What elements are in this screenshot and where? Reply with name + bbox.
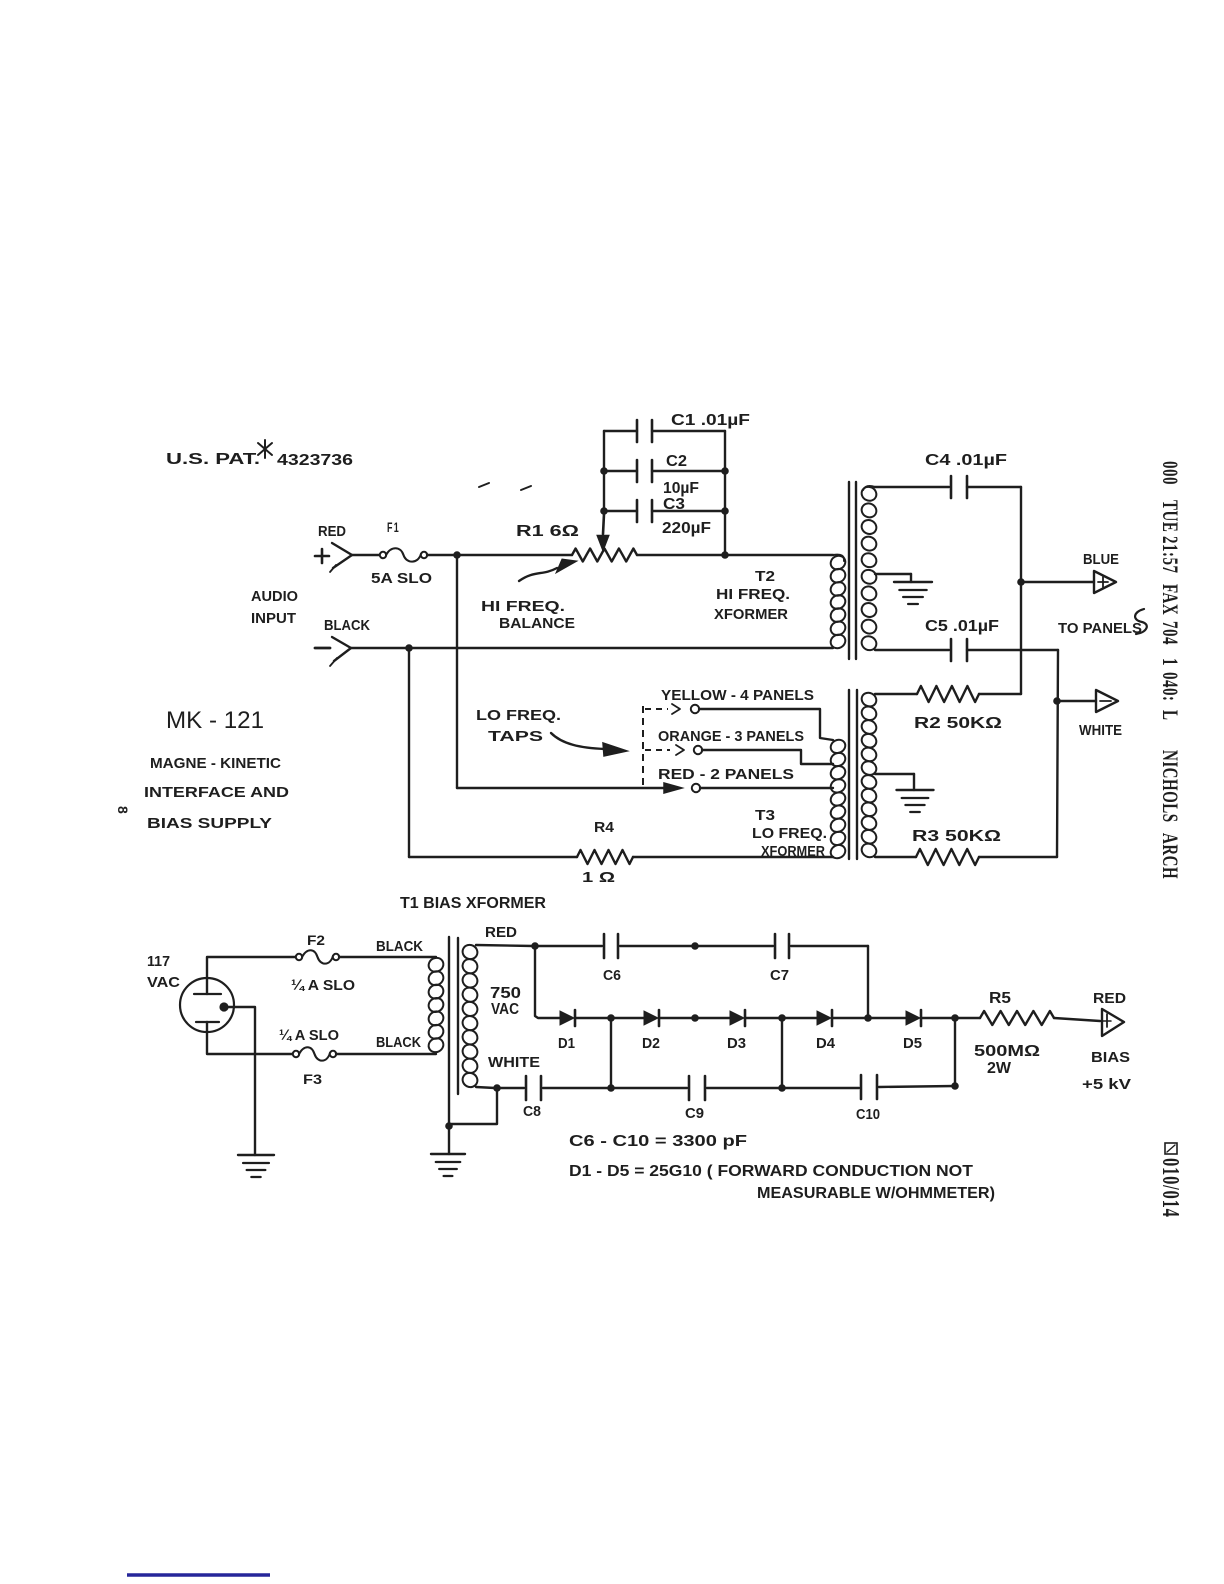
label BIAS xyxy=(1091,1049,1130,1066)
label 8 sideways xyxy=(115,806,131,814)
wire source to ground xyxy=(228,1007,255,1155)
svg-text:1 Ω: 1 Ω xyxy=(582,869,615,886)
svg-text:C4 .01µF: C4 .01µF xyxy=(925,452,1007,469)
wire WHITE to C8 xyxy=(499,1087,524,1089)
svg-text:D5: D5 xyxy=(903,1036,922,1052)
note measurable xyxy=(757,1185,995,1202)
svg-text:MAGNE - KINETIC: MAGNE - KINETIC xyxy=(150,755,281,772)
label 220uF xyxy=(662,520,711,537)
label BLUE xyxy=(1083,552,1119,568)
label R5 xyxy=(989,990,1011,1007)
label F2 xyxy=(307,932,325,948)
resistor R4 xyxy=(409,850,833,864)
label US PAT xyxy=(166,440,353,469)
label T3 LO FREQ xyxy=(752,825,827,842)
note D1-D5 xyxy=(569,1163,973,1180)
svg-text:750: 750 xyxy=(490,985,521,1002)
label C5 .01uF xyxy=(925,618,999,635)
resistor R1 (pot) xyxy=(572,549,637,562)
svg-text:F2: F2 xyxy=(307,932,325,948)
transformer T3 core xyxy=(849,690,857,859)
resistor R5 xyxy=(980,1011,1054,1025)
dashed tap bus xyxy=(642,706,644,788)
label WHITE T1 xyxy=(488,1054,540,1071)
label D4 xyxy=(816,1036,835,1052)
label 10uF xyxy=(663,480,699,497)
output arrow BLUE xyxy=(1094,571,1116,593)
label BLACK xyxy=(324,617,370,634)
svg-text:T2: T2 xyxy=(755,568,775,585)
node dot C2 right xyxy=(721,467,729,475)
label T2 HI FREQ xyxy=(716,586,790,603)
svg-text:220µF: 220µF xyxy=(662,520,711,537)
svg-text:C3: C3 xyxy=(663,496,685,513)
red tap terminal xyxy=(692,784,700,792)
label RED 2 PANELS xyxy=(658,766,794,783)
junction dot BLUE xyxy=(1017,578,1025,586)
svg-text:NICHOLS: NICHOLS xyxy=(1157,750,1182,823)
source dot xyxy=(219,1002,228,1011)
svg-text:¼ A SLO: ¼ A SLO xyxy=(279,1028,339,1044)
label F1 xyxy=(387,519,400,535)
svg-text:ORANGE - 3 PANELS: ORANGE - 3 PANELS xyxy=(658,728,804,745)
svg-text:RED: RED xyxy=(485,924,517,941)
stray S mark xyxy=(1135,609,1147,634)
ground T3 xyxy=(875,774,934,812)
label C10 xyxy=(856,1107,880,1123)
label T3 xyxy=(755,807,775,824)
capacitor C6 xyxy=(604,934,693,958)
label ORANGE 3 PANELS xyxy=(658,728,804,745)
svg-text:C1 .01µF: C1 .01µF xyxy=(671,412,750,429)
svg-text:TAPS: TAPS xyxy=(488,728,543,745)
svg-text:R5: R5 xyxy=(989,990,1011,1007)
label RED xyxy=(318,523,346,540)
svg-text:LO FREQ.: LO FREQ. xyxy=(752,825,827,842)
svg-text:C10: C10 xyxy=(856,1107,880,1123)
label 750 VAC xyxy=(490,985,521,1018)
svg-text:BLACK: BLACK xyxy=(376,938,423,955)
wire C9-C10 xyxy=(784,1087,859,1089)
wire T2 sec bottom to C5 xyxy=(875,649,949,651)
junction dot A (plus rail to taps) xyxy=(453,551,461,559)
junction dot minus rail xyxy=(405,644,413,652)
capacitor C1 xyxy=(604,420,725,442)
svg-text:D4: D4 xyxy=(816,1036,835,1052)
svg-text:¼ A SLO: ¼ A SLO xyxy=(291,978,355,994)
svg-text:R2 50KΩ: R2 50KΩ xyxy=(914,715,1002,732)
label T2 XFORMER xyxy=(714,606,788,623)
wire R2 to C4 drop xyxy=(979,693,1021,695)
svg-text:TO PANELS: TO PANELS xyxy=(1058,621,1142,637)
stray mark 1 xyxy=(479,483,489,487)
label BIAS SUPPLY xyxy=(147,815,272,832)
svg-text:MEASURABLE W/OHMMETER): MEASURABLE W/OHMMETER) xyxy=(757,1185,995,1202)
node dot C3 left xyxy=(600,507,608,515)
junction dot WHITE xyxy=(1053,697,1061,705)
junction dot D4 node xyxy=(864,1014,872,1022)
label 500M xyxy=(974,1043,1040,1060)
wire RED down to diodes xyxy=(535,946,560,1018)
svg-text:C6 - C10 = 3300 pF: C6 - C10 = 3300 pF xyxy=(569,1133,747,1150)
wire tap drop xyxy=(456,555,458,788)
svg-text:D1 - D5 = 25G10 ( FORWARD: D1 - D5 = 25G10 ( FORWARD CONDUCTION NOT xyxy=(569,1163,973,1180)
wire RED to C6 xyxy=(537,945,602,947)
label D5 xyxy=(903,1036,922,1052)
svg-text:704: 704 xyxy=(1157,621,1182,645)
svg-text:VAC: VAC xyxy=(491,1001,519,1018)
wire D1 node drop xyxy=(610,1018,612,1088)
label R1 6ohm xyxy=(516,523,579,540)
junction dot RED rail xyxy=(531,942,539,950)
wire C4 down xyxy=(1020,487,1022,694)
wire F1 to R1 xyxy=(427,554,572,556)
transformer T2 core xyxy=(849,482,856,659)
svg-text:BLUE: BLUE xyxy=(1083,552,1119,568)
wire D5 out xyxy=(922,1017,980,1019)
ac source 117VAC xyxy=(180,978,234,1032)
stray mark 2 xyxy=(521,486,531,490)
fuse F3 xyxy=(293,1047,336,1060)
label quarter A SLO bottom xyxy=(279,1028,339,1044)
resistor R2 xyxy=(917,686,979,702)
svg-text:BIAS SUPPLY: BIAS SUPPLY xyxy=(147,815,272,832)
wire source top xyxy=(207,957,296,978)
svg-text:F3: F3 xyxy=(303,1071,322,1087)
label TO PANELS xyxy=(1058,621,1142,637)
svg-text:RED - 2 PANELS: RED - 2 PANELS xyxy=(658,766,794,783)
wire R3 right xyxy=(979,856,1057,858)
label +5 kV xyxy=(1082,1076,1131,1093)
svg-text:010/014: 010/014 xyxy=(1157,1158,1183,1218)
label C3 xyxy=(663,496,685,513)
svg-text:AUDIO: AUDIO xyxy=(251,589,298,605)
wire D3-D4 xyxy=(745,1017,817,1019)
wire source bottom xyxy=(207,1032,293,1054)
svg-text:8: 8 xyxy=(115,806,131,814)
wire red tap xyxy=(457,787,668,789)
svg-text:R3 50KΩ: R3 50KΩ xyxy=(912,828,1001,845)
transformer T2 secondary xyxy=(859,484,879,652)
label BLACK top xyxy=(376,938,423,955)
label R2 50K xyxy=(914,715,1002,732)
junction dot D2 node xyxy=(691,1014,699,1022)
wire red tap to T3 xyxy=(700,787,833,789)
wire C5 right drop xyxy=(1057,650,1058,857)
label T2 xyxy=(755,568,775,585)
svg-text:BLACK: BLACK xyxy=(376,1034,421,1051)
fuse F2 xyxy=(296,950,339,963)
svg-text:BALANCE: BALANCE xyxy=(499,615,575,632)
svg-text:T3: T3 xyxy=(755,807,775,824)
wire T3 top to R2 xyxy=(875,693,917,695)
fax header text xyxy=(1157,461,1182,879)
junction dot C6-C7 xyxy=(691,942,699,950)
capacitor C10 xyxy=(861,1075,955,1099)
label quarter A SLO top xyxy=(291,978,355,994)
label R4 xyxy=(594,819,615,836)
wire to BLUE arrow xyxy=(1021,581,1094,583)
svg-text:BIAS: BIAS xyxy=(1091,1049,1130,1066)
svg-text:+5 kV: +5 kV xyxy=(1082,1076,1131,1093)
svg-text:000: 000 xyxy=(1157,461,1182,485)
label 5A SLO xyxy=(371,570,432,587)
junction dot D3 node xyxy=(778,1014,786,1022)
svg-text:D2: D2 xyxy=(642,1036,660,1052)
svg-text:117: 117 xyxy=(147,953,170,970)
label F3 xyxy=(303,1071,322,1087)
node + audio input (RED) xyxy=(330,543,381,572)
wire C6 to C7 xyxy=(697,945,773,947)
wire minus drop xyxy=(408,648,410,857)
label 2W xyxy=(987,1060,1011,1077)
wire T3 bottom to R3 xyxy=(875,856,916,858)
svg-text:XFORMER: XFORMER xyxy=(714,606,788,623)
svg-text:LO FREQ.: LO FREQ. xyxy=(476,707,561,724)
ground T2 xyxy=(875,574,932,604)
transformer T1 secondary xyxy=(460,942,480,1089)
diode D1 xyxy=(560,1010,575,1026)
blue scan line xyxy=(127,1573,270,1576)
junction dot C8 node xyxy=(607,1084,615,1092)
capacitor C3 xyxy=(604,500,725,522)
svg-text:500MΩ: 500MΩ xyxy=(974,1043,1040,1060)
orange tap dashes xyxy=(645,745,684,755)
wire T1 ground stub xyxy=(448,1126,450,1154)
capacitor C5 xyxy=(951,639,1058,661)
svg-text:C9: C9 xyxy=(685,1106,704,1122)
svg-text:C8: C8 xyxy=(523,1104,541,1120)
label MAGNE-KINETIC xyxy=(150,755,281,772)
transformer T1 primary xyxy=(426,955,446,1054)
wire T1 sec top xyxy=(476,945,533,946)
diode D4 xyxy=(817,1010,832,1026)
svg-text:HI FREQ.: HI FREQ. xyxy=(716,586,790,603)
label BLACK bottom xyxy=(376,1034,421,1051)
pot wiper arrow xyxy=(598,514,608,549)
label D1 xyxy=(558,1036,575,1052)
junction dot C9 node xyxy=(778,1084,786,1092)
wire to WHITE arrow xyxy=(1057,700,1096,702)
junction dot D5 node xyxy=(951,1014,959,1022)
svg-text:RED: RED xyxy=(318,523,346,540)
svg-text:ARCH: ARCH xyxy=(1157,833,1182,879)
balance arrow xyxy=(519,559,577,581)
wire R5 to bias arrow xyxy=(1054,1018,1100,1021)
ground T1 xyxy=(431,1154,465,1176)
svg-text:HI FREQ.: HI FREQ. xyxy=(481,598,565,615)
svg-text:4323736: 4323736 xyxy=(277,452,353,469)
yellow tap dashes xyxy=(645,704,680,714)
svg-text:10µF: 10µF xyxy=(663,480,699,497)
diode D3 xyxy=(730,1010,745,1026)
label HI FREQ BALANCE xyxy=(481,598,575,632)
capacitor C9 xyxy=(689,1076,780,1100)
label YELLOW 4 PANELS xyxy=(661,687,814,704)
node dot C2 left xyxy=(600,467,608,475)
label C8 xyxy=(523,1104,541,1120)
transformer T3 secondary xyxy=(859,690,878,859)
label MK-121 xyxy=(166,707,264,734)
capacitor C2 xyxy=(604,460,725,482)
label INTERFACE AND xyxy=(144,784,289,801)
label RED bias xyxy=(1093,990,1126,1007)
label R3 50K xyxy=(912,828,1001,845)
transformer T1 core xyxy=(449,937,458,1126)
capacitor C8 xyxy=(526,1076,609,1100)
svg-text:C7: C7 xyxy=(770,968,789,984)
svg-text:BLACK: BLACK xyxy=(324,617,370,634)
wire yellow tap xyxy=(699,709,833,740)
svg-text:D3: D3 xyxy=(727,1036,746,1052)
label T3 XFORMER xyxy=(761,843,825,860)
wire multiplier right drop xyxy=(954,1018,956,1086)
wire R1 to T2 xyxy=(637,554,833,556)
svg-text:INTERFACE AND: INTERFACE AND xyxy=(144,784,289,801)
label T1 BIAS XFORMER xyxy=(400,895,546,912)
wire F3 to T1 xyxy=(336,1053,436,1055)
label C7 xyxy=(770,968,789,984)
label D3 xyxy=(727,1036,746,1052)
orange tap terminal xyxy=(694,746,702,754)
red tap arrow xyxy=(664,783,682,793)
wire D4-D5 xyxy=(832,1017,906,1019)
capacitor C7 xyxy=(775,934,868,958)
label C1 .01uF xyxy=(671,412,750,429)
svg-text:C6: C6 xyxy=(603,968,621,984)
wire cap bus right xyxy=(724,431,726,555)
wire C8-C9 xyxy=(613,1087,687,1089)
svg-text:D1: D1 xyxy=(558,1036,575,1052)
svg-text:F1: F1 xyxy=(387,519,400,535)
wire T2 sec top to C4 xyxy=(875,486,949,488)
fax page number xyxy=(1157,1158,1183,1218)
label AUDIO INPUT xyxy=(251,589,298,627)
svg-text:FAX: FAX xyxy=(1157,584,1182,615)
transformer T2 primary xyxy=(828,553,847,650)
label C4 .01uF xyxy=(925,452,1007,469)
capacitor C4 xyxy=(951,476,1021,498)
junction dot C10 node xyxy=(951,1082,959,1090)
diode D5 xyxy=(906,1010,921,1026)
taps arrow xyxy=(551,733,627,756)
svg-text:T1 BIAS XFORMER: T1 BIAS XFORMER xyxy=(400,895,546,912)
svg-text:MK - 121: MK - 121 xyxy=(166,707,264,734)
svg-text:YELLOW - 4 PANELS: YELLOW - 4 PANELS xyxy=(661,687,814,704)
svg-text:2W: 2W xyxy=(987,1060,1011,1077)
wire D3 node drop xyxy=(781,1018,783,1088)
transformer T3 primary xyxy=(828,737,847,861)
svg-text:RED: RED xyxy=(1093,990,1126,1007)
wire F2 to T1 xyxy=(339,956,436,958)
wire WHITE drop to ground xyxy=(451,1088,497,1124)
yellow tap terminal xyxy=(691,705,699,713)
svg-text:040:: 040: xyxy=(1157,672,1182,701)
label WHITE xyxy=(1079,723,1122,739)
label C6 xyxy=(603,968,621,984)
label 117 VAC xyxy=(147,953,180,991)
wire T1 sec bottom xyxy=(476,1087,495,1088)
wire orange tap xyxy=(702,750,833,764)
fuse F1 xyxy=(380,548,427,561)
label 1 ohm xyxy=(582,869,615,886)
label - xyxy=(315,647,330,650)
svg-text:5A SLO: 5A SLO xyxy=(371,570,432,587)
label D2 xyxy=(642,1036,660,1052)
wire cap bus left xyxy=(603,431,605,514)
svg-text:R4: R4 xyxy=(594,819,615,836)
wire D2-D3 xyxy=(660,1017,730,1019)
fax page icon xyxy=(1165,1143,1177,1154)
label C9 xyxy=(685,1106,704,1122)
node - audio input (BLACK) xyxy=(330,637,833,666)
ground mains xyxy=(238,1155,274,1177)
svg-text:L: L xyxy=(1157,710,1182,721)
svg-text:TUE: TUE xyxy=(1157,500,1182,532)
svg-text:INPUT: INPUT xyxy=(251,611,296,627)
note C6-C10 xyxy=(569,1133,747,1150)
svg-text:VAC: VAC xyxy=(147,974,180,991)
label + xyxy=(315,549,329,563)
output arrow WHITE xyxy=(1096,690,1118,712)
svg-text:C5 .01µF: C5 .01µF xyxy=(925,618,999,635)
svg-text:21:57: 21:57 xyxy=(1157,536,1182,573)
svg-text:WHITE: WHITE xyxy=(488,1054,540,1071)
svg-text:1: 1 xyxy=(1157,658,1182,666)
svg-text:C2: C2 xyxy=(666,453,687,470)
label RED T1 xyxy=(485,924,517,941)
diode D2 xyxy=(644,1010,659,1026)
wire D1-D2 xyxy=(576,1017,644,1019)
svg-text:WHITE: WHITE xyxy=(1079,723,1122,739)
junction dot D1 node xyxy=(607,1014,615,1022)
resistor R3 xyxy=(916,849,979,865)
junction dot WHITE rail xyxy=(493,1084,501,1092)
junction dot cap bus xyxy=(721,551,729,559)
output arrow BIAS xyxy=(1102,1009,1124,1036)
label C2 xyxy=(666,453,687,470)
svg-text:R1 6Ω: R1 6Ω xyxy=(516,523,579,540)
label LO FREQ TAPS xyxy=(476,707,561,745)
wire C7 corner down xyxy=(867,946,869,1018)
svg-text:U.S. PAT.: U.S. PAT. xyxy=(166,451,260,468)
junction dot T1 ground xyxy=(445,1122,453,1130)
node dot C3 right xyxy=(721,507,729,515)
